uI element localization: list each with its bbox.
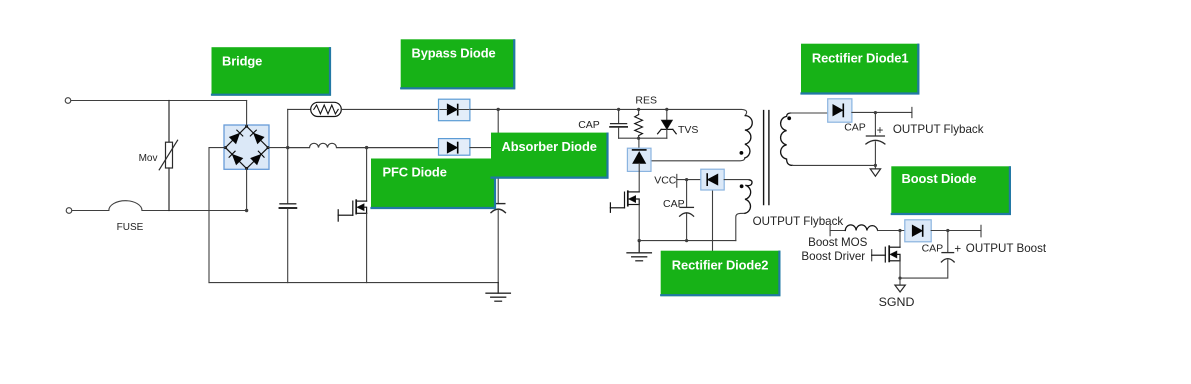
node PFC output junction (497, 108, 500, 111)
wire DC bus riser (287, 109, 289, 203)
svg-text:VCC: VCC (654, 175, 677, 187)
transformer T1 primary winding (745, 116, 752, 158)
svg-text:CAP: CAP (663, 198, 685, 210)
svg-text:Mov: Mov (139, 153, 158, 164)
node snubber res tap (637, 108, 640, 111)
svg-text:TVS: TVS (678, 124, 698, 136)
ground (signal) flyback triangle (870, 165, 880, 176)
node bridge left vertex (224, 146, 227, 149)
node bridge bottom vertex (245, 167, 248, 170)
wire PFC output to snubber/primary top (498, 109, 746, 115)
node MOSFET drain tap (365, 146, 368, 149)
ground (earth) primary (627, 241, 651, 261)
wire secondary top to rectifier diode1 (791, 112, 828, 114)
bridge diode top-right (250, 130, 263, 143)
diode D4 rectifier2 (highlight box) (701, 169, 724, 190)
node bridge right vertex (267, 146, 270, 149)
diode TVS clamp (658, 109, 677, 138)
wire DC bus top to resistor (288, 108, 311, 110)
diode D1 bypass (highlight box) (439, 99, 470, 121)
diode D6 boost (highlight box) (905, 220, 931, 242)
bridge diode top-left (230, 130, 243, 143)
bridge B1 diamond (225, 126, 268, 168)
wire snubber to absorber diode (638, 138, 640, 150)
node aux dot (740, 184, 744, 188)
resistor RES snubber (635, 109, 643, 138)
wire Q3 source down (899, 261, 901, 285)
node snubber cap tap (617, 108, 620, 111)
transformer T1 aux winding (745, 180, 752, 214)
svg-text:CAP: CAP (578, 119, 600, 131)
node snubber bottom junction (637, 137, 640, 140)
svg-text:Boost Diode: Boost Diode (902, 171, 977, 186)
svg-text:PFC Diode: PFC Diode (383, 165, 447, 180)
diode D5 rectifier1 (highlight box) (828, 99, 852, 122)
bridge B1 highlight box (224, 125, 269, 169)
wire neutral to fuse (72, 210, 109, 212)
node boost return junction (898, 277, 901, 280)
varistor Mov (159, 101, 177, 211)
capacitor C4 VCC (680, 180, 694, 241)
label box Absorber Diode (491, 133, 609, 179)
wire bridge left vertex down to ground rail (209, 148, 225, 283)
label box Bypass Diode (401, 39, 516, 89)
wire snubber bottom bar (619, 137, 667, 139)
bridge diode bottom-left (229, 151, 242, 164)
inductor L2 boost (845, 225, 877, 231)
wire bridge bottom to neutral (246, 169, 248, 211)
wire aux winding return riser (736, 213, 745, 240)
inductor L1 PFC choke (288, 143, 439, 147)
wire bottom ground rail (209, 282, 498, 284)
wire resistor to bypass diode (341, 108, 438, 110)
resistor inrush (boxed) (311, 102, 342, 116)
node secondary return junction (874, 164, 877, 167)
node secondary dot (787, 116, 791, 120)
capacitor C2 bulk electrolytic (491, 204, 505, 213)
diode D3 absorber (highlight box) (627, 148, 651, 171)
svg-text:Bypass Diode: Bypass Diode (412, 46, 496, 61)
capacitor C5 flyback output (866, 113, 885, 166)
svg-text:+: + (877, 125, 884, 137)
transformer T1 core (764, 111, 769, 205)
svg-text:CAP: CAP (922, 243, 944, 255)
terminal N (AC neutral input) (66, 208, 72, 214)
node flyback cap tap (874, 111, 877, 114)
label box Boost Diode (891, 166, 1011, 215)
transistor Q1 PFC MOSFET (338, 148, 366, 283)
wire top AC line (71, 100, 247, 102)
wire bridge right vertex to DC node (268, 147, 288, 149)
svg-text:Boost Driver: Boost Driver (801, 250, 865, 263)
svg-text:+: + (954, 244, 961, 256)
node TVS tap (665, 108, 668, 111)
node bridge top vertex (245, 125, 248, 128)
svg-text:SGND: SGND (879, 295, 915, 309)
wire Q2 source down (638, 205, 640, 241)
wire boost diode to output (931, 230, 981, 232)
svg-text:CAP: CAP (844, 121, 866, 133)
wire C1 to ground rail (287, 209, 289, 283)
wire C2 to ground rail (497, 210, 499, 282)
node primary dot (740, 151, 744, 155)
wire boost inductor to diode (878, 230, 905, 232)
terminal L (AC line input) (65, 98, 71, 104)
node VCC cap bottom junction (685, 239, 688, 242)
capacitor C3 snubber (610, 109, 627, 138)
terminal boost gate tick (871, 250, 873, 261)
leader line to Rectifier Diode2 label (712, 190, 714, 251)
terminal boost input tick (829, 225, 831, 235)
bridge diode bottom-right (251, 151, 264, 164)
svg-text:OUTPUT Boost: OUTPUT Boost (966, 242, 1047, 255)
ground (signal) SGND triangle (895, 285, 905, 292)
node DC bus junction (286, 146, 289, 149)
wire secondary bottom (793, 164, 876, 166)
wire primary-side bottom rail (639, 240, 736, 242)
node source/ground junction (638, 239, 641, 242)
svg-text:Rectifier Diode1: Rectifier Diode1 (812, 50, 909, 65)
wire AC line to bridge top (246, 101, 248, 127)
svg-text:Bridge: Bridge (222, 54, 262, 69)
wire fuse to bridge bottom node (142, 210, 247, 212)
svg-text:OUTPUT Flyback: OUTPUT Flyback (893, 123, 984, 136)
svg-text:RES: RES (635, 95, 657, 107)
wire absorber diode to drain node (638, 163, 640, 192)
terminal flyback output tick (911, 107, 913, 117)
svg-text:FUSE: FUSE (117, 222, 144, 233)
transistor Q3 boost MOSFET (872, 231, 900, 263)
fuse FUSE (109, 201, 142, 211)
wire diode2 to aux winding top (724, 179, 749, 181)
transformer T1 secondary winding (781, 113, 793, 165)
wire PFC diode to output node (470, 147, 498, 149)
label box Bridge (212, 47, 332, 95)
svg-text:Absorber Diode: Absorber Diode (502, 139, 597, 154)
node VCC cap tap (685, 178, 688, 181)
svg-text:Rectifier Diode2: Rectifier Diode2 (672, 257, 769, 272)
diode D2 PFC (highlight box) (439, 139, 470, 156)
wire diode1 to flyback output (852, 111, 912, 113)
wire VCC to rectifier diode2 (677, 179, 701, 181)
label box PFC Diode (371, 159, 496, 210)
transistor Q2 flyback MOSFET (610, 191, 639, 212)
terminal VCC tick (676, 174, 678, 187)
node junction fuse/bridge (245, 209, 248, 212)
label box Rectifier Diode1 (801, 44, 919, 95)
wire drain to primary bottom (639, 158, 745, 161)
node boost cap tap (946, 229, 949, 232)
wire bulk cap riser (497, 109, 499, 203)
ground (earth) main (486, 283, 510, 302)
capacitor C1 input filter (280, 204, 297, 208)
node boost MOS drain tap (898, 229, 901, 232)
label box Rectifier Diode2 (661, 251, 781, 297)
wire bypass diode to output node (470, 108, 498, 110)
svg-text:Boost MOS: Boost MOS (808, 236, 868, 249)
capacitor C6 boost output (900, 231, 954, 279)
wire boost input (830, 230, 845, 232)
terminal boost output tick (980, 225, 982, 237)
